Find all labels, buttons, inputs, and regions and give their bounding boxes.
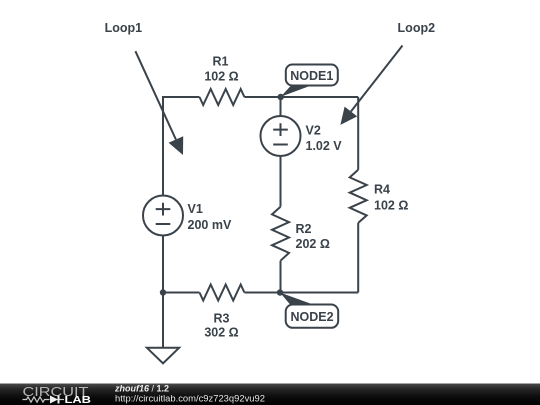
svg-text:R3: R3	[214, 312, 230, 326]
Loop2 arrow	[340, 46, 402, 125]
wire: left branch V1 to bottom junction	[162, 236, 164, 293]
resistor R4	[350, 170, 367, 223]
wire: bottom middle (R3 to right corner)	[244, 292, 358, 294]
wire: bottom left (junction to R3)	[163, 292, 200, 294]
svg-text:200 mV: 200 mV	[188, 218, 232, 232]
ground	[147, 348, 179, 364]
svg-text:102 Ω: 102 Ω	[204, 70, 238, 84]
svg-text:NODE1: NODE1	[290, 69, 333, 83]
resistor R3	[200, 285, 245, 301]
node NODE2 dot	[277, 289, 283, 295]
wire: middle branch R2 to bottom	[280, 261, 282, 293]
svg-text:202 Ω: 202 Ω	[296, 237, 330, 251]
wire: right branch upper	[357, 97, 359, 170]
wire: ground lead	[162, 293, 164, 348]
svg-text:R2: R2	[296, 222, 312, 236]
svg-text:V1: V1	[188, 202, 203, 216]
footer bar	[0, 384, 540, 405]
wire: middle branch node to V2	[280, 97, 282, 116]
CircuitLab logo	[23, 384, 92, 405]
node NODE2 flag	[280, 293, 338, 328]
resistor R1	[200, 89, 245, 105]
junction dot at V1 bottom	[160, 289, 166, 295]
svg-text:http://circuitlab.com/c9z723q9: http://circuitlab.com/c9z723q92vu92	[115, 394, 265, 404]
svg-text:302 Ω: 302 Ω	[204, 326, 238, 340]
svg-text:LAB: LAB	[65, 394, 92, 405]
svg-text:NODE2: NODE2	[290, 310, 333, 324]
svg-text:zhouf16 / 1.2: zhouf16 / 1.2	[114, 383, 169, 393]
voltage source V2	[261, 116, 301, 156]
voltage source V1	[143, 196, 183, 236]
wire: top-left corner, left branch to R1	[163, 97, 200, 196]
svg-text:R1: R1	[213, 55, 229, 69]
svg-text:V2: V2	[306, 124, 321, 138]
svg-text:R4: R4	[374, 183, 390, 197]
Loop1 arrow	[135, 51, 183, 155]
svg-text:Loop1: Loop1	[105, 21, 143, 35]
node NODE1 flag	[281, 65, 338, 97]
wire: right branch lower	[357, 223, 359, 293]
svg-text:Loop2: Loop2	[398, 21, 436, 35]
node NODE1 dot	[278, 94, 284, 100]
wire: top middle (R1 to right corner)	[244, 96, 358, 98]
svg-text:102 Ω: 102 Ω	[374, 199, 408, 213]
wire: middle branch V2 to R2	[280, 156, 282, 207]
resistor R2	[272, 207, 289, 261]
svg-text:1.02 V: 1.02 V	[306, 139, 343, 153]
